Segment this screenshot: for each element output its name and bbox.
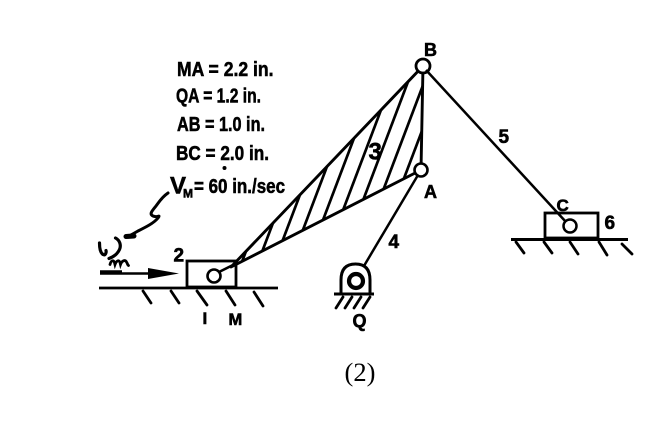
- svg-text:5: 5: [499, 127, 510, 148]
- svg-text:QA = 1.2 in.: QA = 1.2 in.: [176, 86, 261, 108]
- svg-text:BC = 2.0 in.: BC = 2.0 in.: [176, 143, 269, 165]
- svg-text:M: M: [183, 187, 193, 201]
- svg-text:A: A: [424, 182, 437, 202]
- svg-text:B: B: [424, 40, 437, 60]
- svg-text:MA = 2.2 in.: MA = 2.2 in.: [177, 59, 274, 81]
- svg-text:M: M: [229, 311, 243, 329]
- svg-text:AB = 1.0 in.: AB = 1.0 in.: [177, 114, 265, 136]
- svg-text:(2): (2): [345, 357, 376, 387]
- svg-text:Q: Q: [353, 311, 367, 331]
- svg-text:2: 2: [174, 246, 185, 267]
- svg-text:I: I: [203, 309, 208, 328]
- svg-text:3: 3: [369, 139, 382, 166]
- svg-text:4: 4: [389, 232, 400, 253]
- svg-text:C: C: [557, 196, 569, 215]
- svg-text:6: 6: [605, 213, 616, 234]
- svg-text:= 60 in./sec: = 60 in./sec: [194, 176, 285, 198]
